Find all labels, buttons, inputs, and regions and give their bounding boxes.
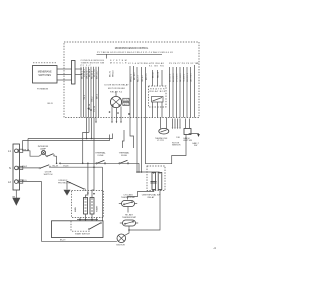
- start winding feed: [92, 190, 94, 198]
- drum ground symbol: [64, 190, 71, 196]
- svg-text:BK-110 2: BK-110 2: [170, 73, 172, 82]
- terminal N: [14, 166, 18, 170]
- long bus wire upper: [28, 134, 113, 139]
- thermal fuse switch 2: [119, 163, 121, 165]
- connector P2 vertical wire labels: [81, 68, 98, 112]
- svg-text:BU-28: BU-28: [53, 165, 58, 167]
- interior lamp bulb: [41, 151, 45, 155]
- heater top link: [137, 171, 160, 173]
- heater relay feed columns: [145, 67, 147, 118]
- start switch travel dashes: [72, 230, 91, 232]
- svg-text:SW-2: SW-2: [91, 96, 93, 102]
- svg-text:GY-150 6: GY-150 6: [177, 73, 179, 82]
- lamp door switch blade: [47, 154, 53, 157]
- microprocessor control dashed enclosure: [64, 42, 199, 118]
- cycling tstat bottom lead: [127, 207, 129, 213]
- aux winding: [90, 198, 94, 215]
- svg-text:BK-52: BK-52: [153, 71, 155, 78]
- branch jog to thermal wire: [83, 132, 89, 163]
- svg-text:FUSE: FUSE: [121, 155, 127, 157]
- ground lead GN: [15, 190, 17, 199]
- connector J2 column: [130, 66, 134, 148]
- svg-text:P1 T BK-34 GY-19 OR-52 1 BU-14: P1 T BK-34 GY-19 OR-52 1 BU-14 2 RD-2 3 …: [97, 52, 174, 54]
- left pin drops below control: [87, 118, 95, 191]
- svg-text:WH-12 1: WH-12 1: [131, 73, 133, 82]
- svg-text:MICROPROCESSOR CONTROL: MICROPROCESSOR CONTROL: [115, 46, 149, 50]
- svg-text:BU-220 4: BU-220 4: [173, 73, 175, 82]
- bracket line under part numbers: [97, 53, 163, 55]
- heater relay leads up: [153, 70, 163, 86]
- junction dots below relay: [109, 111, 111, 113]
- start switch inner dashed edge: [70, 221, 72, 231]
- svg-text:RELAY K2: RELAY K2: [110, 90, 123, 93]
- svg-text:RELAY: RELAY: [148, 196, 155, 199]
- svg-text:OR-8 4: OR-8 4: [142, 74, 144, 82]
- coil bottom to cycling tstat: [128, 190, 154, 200]
- winding feed riser: [86, 163, 88, 197]
- thermal fuse wire: [61, 162, 140, 164]
- svg-text:MAIN: MAIN: [74, 206, 77, 212]
- cabinet hi limit box: [184, 129, 191, 135]
- svg-text:LT CTR: LT CTR: [157, 140, 164, 142]
- svg-text:RUN: RUN: [124, 100, 129, 102]
- svg-text:WH-10 7: WH-10 7: [96, 70, 98, 79]
- lamp wire to junction: [55, 155, 57, 157]
- svg-text:SWITCH: SWITCH: [44, 174, 53, 176]
- svg-text:RD-2 3: RD-2 3: [138, 75, 140, 82]
- drum belt switch blade: [67, 181, 85, 189]
- svg-text:BK-70: BK-70: [109, 70, 111, 77]
- thermostat oval below control: [159, 128, 169, 134]
- thermal fuse 2 feed jog: [122, 130, 124, 148]
- L2 run wire down to bottom bus: [20, 182, 117, 242]
- L2 lug: [19, 180, 23, 183]
- N wire to door switch: [20, 167, 40, 169]
- svg-text:GY-30: GY-30: [94, 105, 96, 112]
- svg-text:BU-9 5: BU-9 5: [146, 73, 148, 80]
- chassis ground symbol: [12, 198, 20, 206]
- svg-text:THERMAL: THERMAL: [119, 151, 130, 154]
- heater relay leads down: [153, 102, 163, 118]
- membrane ribbon wires: [57, 69, 72, 80]
- long bus wire lower: [23, 135, 110, 141]
- svg-text:THERMOSTAT: THERMOSTAT: [121, 196, 136, 199]
- svg-text:-4: -4: [213, 246, 216, 250]
- svg-text:P5 P6 P7 P8 P9 X2 Y4: P5 P6 P7 P8 P9 X2 Y4: [169, 63, 198, 65]
- thermal wire drop to heater: [138, 163, 140, 172]
- svg-text:MOTOR RELAY: MOTOR RELAY: [108, 87, 126, 90]
- box top pin ticks: [80, 218, 97, 221]
- svg-text:BR-6: BR-6: [96, 93, 98, 99]
- RUN AUX contact labels: [123, 98, 129, 101]
- relay output arrow terminals: [111, 122, 113, 124]
- relay output wires to box edge: [112, 107, 121, 122]
- svg-text:HTR REL: HTR REL: [138, 63, 150, 65]
- door switch blade: [40, 165, 49, 169]
- door motor relay motor symbol: [110, 96, 121, 107]
- pin stub below P2: [95, 118, 97, 122]
- igniter circle: [117, 234, 126, 243]
- dotted trace above membrane box: [33, 62, 57, 64]
- bracket drop tick: [106, 54, 108, 58]
- N lug: [19, 166, 23, 169]
- svg-text:LIMIT SW: LIMIT SW: [183, 140, 192, 142]
- lamp return riser: [56, 156, 58, 163]
- svg-text:THERMOSTAT: THERMOSTAT: [122, 216, 137, 219]
- svg-text:SENSOR: SENSOR: [172, 145, 181, 147]
- svg-text:RELAY BOX: RELAY BOX: [150, 90, 166, 93]
- svg-text:BK-15: BK-15: [48, 103, 53, 105]
- winding bottom leads: [85, 214, 87, 220]
- connector P2 pin lines: [81, 67, 99, 118]
- svg-text:DOOR MOTOR RELAY: DOOR MOTOR RELAY: [105, 84, 130, 87]
- svg-text:THERMAL: THERMAL: [95, 151, 106, 154]
- svg-text:START SWITCH: START SWITCH: [75, 233, 90, 236]
- door wire drop to motor box: [102, 167, 104, 221]
- sensor stub arrows: [173, 119, 181, 128]
- svg-text:IGNITOR: IGNITOR: [116, 245, 125, 247]
- svg-text:GY-28: GY-28: [63, 165, 68, 167]
- terminal L1: [14, 149, 18, 153]
- coil bottom right run: [129, 190, 160, 231]
- svg-text:HTR RELAY: HTR RELAY: [149, 62, 165, 65]
- main winding: [84, 198, 88, 215]
- output connector pin lines: [170, 67, 191, 118]
- coil top leads: [153, 172, 155, 174]
- stub wires right of P3: [75, 69, 82, 75]
- connector P3 strip: [72, 61, 76, 85]
- junction dots on P2 pins: [88, 108, 90, 110]
- svg-text:TM-1: TM-1: [84, 94, 86, 100]
- heater coil 2: [158, 173, 162, 190]
- svg-text:SW: SW: [194, 145, 197, 147]
- svg-text:RD-40: RD-40: [158, 71, 160, 78]
- svg-text:OR-770 5: OR-770 5: [191, 72, 193, 82]
- svg-text:AUX: AUX: [124, 103, 129, 106]
- svg-text:BK-19: BK-19: [60, 240, 65, 242]
- svg-text:Y-80: Y-80: [176, 137, 180, 139]
- hi limit bottom lead to igniter: [128, 226, 130, 230]
- svg-text:PROTECTOR: PROTECTOR: [58, 183, 72, 185]
- sensor line P9: [194, 65, 196, 118]
- lamp feed risers to bus: [22, 141, 24, 151]
- svg-text:BK-16 2: BK-16 2: [134, 72, 136, 80]
- wire end arrow: [59, 162, 61, 164]
- svg-text:WH-40: WH-40: [112, 70, 114, 77]
- thermal fuse switch 1: [96, 163, 98, 165]
- svg-text:SWITCHES: SWITCHES: [38, 74, 51, 77]
- heater relay box dashed: [149, 86, 167, 107]
- svg-text:RD-190 8: RD-190 8: [180, 73, 182, 82]
- lamp leads: [39, 154, 42, 156]
- svg-text:FUSE: FUSE: [98, 155, 104, 157]
- svg-text:WH-310 3: WH-310 3: [187, 72, 189, 82]
- cab box outlet to arrow terminal: [189, 133, 199, 136]
- heater feed step to cab limit: [146, 118, 187, 164]
- start switch blade: [90, 223, 101, 229]
- svg-text:N: N: [9, 166, 11, 170]
- svg-text:K1 BK RD: K1 BK RD: [149, 66, 164, 68]
- hi limit thermostat symbol: [123, 220, 136, 226]
- membrane switches box: [33, 66, 58, 84]
- terminal L2: [14, 180, 18, 184]
- L1 fuse block: [19, 149, 23, 152]
- L1 wire to lamp circuit: [23, 151, 39, 156]
- svg-text:J2 1-4: J2 1-4: [128, 63, 137, 65]
- drive motor dashed box: [72, 191, 104, 218]
- drum ground stem: [66, 182, 68, 190]
- coil tap bars: [151, 181, 157, 183]
- heater relay contact symbol: [152, 97, 164, 103]
- svg-text:MODULE: MODULE: [110, 63, 127, 65]
- svg-text:START: START: [96, 205, 99, 212]
- igniter top lead: [125, 230, 130, 236]
- svg-text:P3 RIBBON: P3 RIBBON: [37, 89, 49, 91]
- cycling thermostat symbol: [122, 201, 135, 207]
- svg-text:YL-400 1: YL-400 1: [184, 73, 186, 82]
- junction door wire to winding riser: [93, 166, 95, 168]
- start switch box: [52, 221, 104, 238]
- heater coil 1: [152, 173, 156, 190]
- door switch output wire: [51, 166, 103, 168]
- terminal block: [13, 144, 20, 190]
- heater element dashed box: [147, 166, 165, 191]
